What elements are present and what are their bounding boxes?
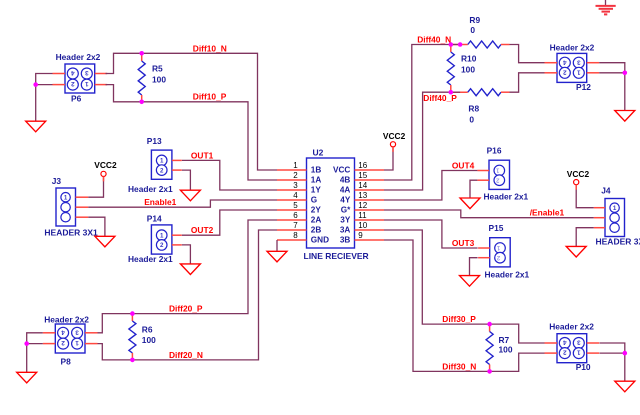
svg-text:Diff30_N: Diff30_N (442, 361, 476, 371)
wire VCC2 to J4 pin1 (576, 185, 594, 208)
wire net Diff10_P from P6 to U2 pin2 (106, 85, 278, 180)
wire net /Enable1 from U2 pin12 to J4 pin2 (384, 210, 594, 218)
svg-text:Header 2x2: Header 2x2 (56, 52, 101, 62)
svg-text:VCC2: VCC2 (567, 169, 590, 179)
svg-text:1: 1 (75, 339, 79, 346)
ground under P16 (460, 198, 480, 209)
wire P16 pin2 to ground (470, 180, 477, 198)
svg-text:R8: R8 (468, 104, 479, 114)
wire net OUT1 from P13 to U2 pin3 (182, 160, 277, 190)
svg-text:P8: P8 (61, 357, 72, 367)
svg-text:OUT2: OUT2 (191, 225, 214, 235)
wire P15 pin2 to ground (470, 258, 478, 276)
svg-text:Header 2x1: Header 2x1 (128, 184, 173, 194)
svg-text:Enable1: Enable1 (144, 197, 176, 207)
svg-text:1: 1 (577, 68, 581, 75)
resistor R6 (129, 314, 136, 360)
ground under P10 (615, 381, 635, 392)
junction Diff20_N at R6 (130, 358, 135, 363)
wire P8 pins to ground (27, 333, 43, 373)
connector P16 Header 2x1 (477, 160, 509, 189)
svg-text:2: 2 (160, 167, 164, 174)
svg-text:Diff10_P: Diff10_P (193, 92, 227, 102)
svg-text:GND: GND (311, 236, 329, 245)
svg-text:VCC2: VCC2 (383, 131, 406, 141)
svg-text:2B: 2B (311, 226, 322, 235)
svg-text:4A: 4A (340, 186, 351, 195)
svg-text:3: 3 (577, 339, 581, 346)
svg-text:1: 1 (160, 158, 164, 165)
resistor R10 (447, 45, 454, 93)
svg-text:Header 2x2: Header 2x2 (550, 42, 595, 52)
svg-text:1: 1 (496, 167, 500, 174)
junction Diff30_N at R7 (487, 369, 492, 374)
resistor R5 (138, 53, 145, 102)
wire J3 pin3 to ground (88, 217, 105, 236)
svg-text:9: 9 (358, 231, 363, 240)
svg-text:P12: P12 (576, 82, 591, 92)
svg-text:R5: R5 (152, 64, 163, 74)
svg-text:14: 14 (358, 181, 367, 190)
svg-text:7: 7 (293, 221, 298, 230)
svg-text:HEADER 3X1: HEADER 3X1 (596, 236, 640, 246)
svg-text:OUT3: OUT3 (452, 238, 475, 248)
wire R7 bottom to P10 (490, 353, 545, 371)
ground under U2 pin8 (267, 251, 287, 262)
connector P6 Header 2x2 (53, 64, 108, 93)
svg-text:Diff20_N: Diff20_N (169, 350, 203, 360)
svg-text:0: 0 (470, 25, 475, 35)
wire VCC2 to U2 pin16 (384, 147, 393, 170)
connector J4 HEADER 3X1 (594, 199, 625, 237)
svg-text:1: 1 (293, 161, 298, 170)
resistor R9 (451, 41, 510, 48)
resistor R8 (451, 89, 510, 96)
wire net OUT3 from U2 pin11 to P15 (384, 220, 478, 248)
svg-text:VCC: VCC (333, 166, 350, 175)
svg-text:10: 10 (358, 221, 367, 230)
svg-text:3: 3 (85, 69, 89, 76)
svg-text:R10: R10 (461, 54, 477, 64)
resistor R7 (486, 324, 493, 371)
power VCC2 near U2 (390, 142, 395, 152)
junction Diff40_N at R9 (458, 42, 463, 47)
svg-text:4: 4 (563, 58, 567, 65)
wire P12 right pins to ground (599, 63, 625, 111)
svg-text:12: 12 (358, 201, 367, 210)
svg-text:1B: 1B (311, 166, 322, 175)
ground under J4 (566, 246, 586, 257)
junction Diff30_P at R7 (487, 322, 492, 327)
connector P13 Header 2x1 (151, 150, 181, 179)
wire R7 top to P10 (490, 324, 545, 343)
svg-text:1: 1 (613, 205, 617, 212)
svg-text:16: 16 (358, 161, 367, 170)
svg-text:4: 4 (71, 69, 75, 76)
svg-text:3B: 3B (340, 236, 351, 245)
wire net Diff20_N from U2 pin7 to P8 (98, 230, 278, 360)
svg-text:P13: P13 (147, 136, 162, 146)
svg-text:1: 1 (64, 195, 68, 202)
ground under P8 (17, 372, 37, 383)
junction P10 ground (623, 351, 628, 356)
svg-text:G*: G* (341, 206, 351, 215)
wire net Diff40_N from U2 pin15 to R9/R10 (384, 45, 460, 181)
svg-text:OUT4: OUT4 (452, 161, 475, 171)
svg-text:Diff30_P: Diff30_P (442, 314, 476, 324)
ground under P12 (615, 111, 635, 122)
svg-text:2Y: 2Y (311, 206, 322, 215)
svg-text:6: 6 (293, 211, 298, 220)
svg-text:4Y: 4Y (340, 196, 351, 205)
svg-text:100: 100 (461, 65, 475, 75)
svg-text:P16: P16 (487, 145, 502, 155)
svg-text:3A: 3A (340, 226, 351, 235)
svg-text:4: 4 (563, 339, 567, 346)
wire stub to earth ground (605, 0, 607, 6)
svg-text:2: 2 (496, 254, 500, 261)
svg-text:P14: P14 (147, 214, 162, 224)
junction P8 ground (24, 341, 29, 346)
junction Diff40_N at R10 (449, 42, 454, 47)
svg-text:100: 100 (499, 344, 513, 354)
wire U2 pin8 GND to ground (276, 240, 278, 251)
wire P6 pins to ground (36, 74, 53, 122)
svg-text:HEADER 3X1: HEADER 3X1 (44, 228, 98, 238)
svg-text:R6: R6 (142, 325, 153, 335)
svg-text:100: 100 (152, 75, 166, 85)
svg-text:2: 2 (61, 339, 65, 346)
svg-text:5: 5 (293, 201, 298, 210)
svg-text:Header 2x1: Header 2x1 (484, 191, 529, 201)
svg-text:1: 1 (577, 349, 581, 356)
ground under J3 (95, 236, 115, 247)
ground under P14 (180, 264, 200, 275)
svg-text:Diff20_P: Diff20_P (169, 304, 203, 314)
svg-text:Header 2x2: Header 2x2 (44, 315, 89, 325)
svg-text:100: 100 (142, 335, 156, 345)
connector P10 Header 2x2 (545, 334, 600, 363)
svg-text:U2: U2 (313, 148, 324, 158)
earth ground top right (596, 6, 616, 15)
wire net OUT2 from P14 to U2 pin5 (182, 210, 277, 235)
ground under P13 (180, 190, 200, 201)
svg-text:4: 4 (61, 328, 65, 335)
svg-text:8: 8 (293, 231, 298, 240)
wire R9 to P12 pin4 (510, 45, 545, 63)
svg-text:Diff40_P: Diff40_P (423, 93, 457, 103)
svg-text:3: 3 (293, 181, 298, 190)
wire P10 right pins to ground (600, 343, 625, 381)
junction P6 ground (33, 82, 38, 87)
wire net Diff30_P from U2 pin10 to R7 (384, 230, 490, 324)
svg-text:Diff10_N: Diff10_N (193, 44, 227, 54)
wire VCC2 to J3 pin1 (88, 177, 103, 197)
wire P12 pin1 to junction (599, 72, 625, 74)
connector P14 Header 2x1 (151, 225, 181, 254)
connector P8 Header 2x2 (43, 324, 98, 353)
svg-text:1A: 1A (311, 176, 322, 185)
svg-text:P15: P15 (489, 223, 504, 233)
svg-text:1: 1 (496, 244, 500, 251)
svg-text:Diff40_N: Diff40_N (417, 34, 451, 44)
svg-text:3Y: 3Y (340, 216, 351, 225)
svg-text:2: 2 (160, 242, 164, 249)
wire R8 to P12 pin2 (510, 73, 545, 92)
svg-text:1: 1 (160, 233, 164, 240)
wire P8 pin2 to junction (27, 343, 43, 345)
svg-text:4B: 4B (340, 176, 351, 185)
wire P10 pin1 to junction (600, 352, 625, 354)
power VCC2 near J4 (574, 180, 579, 190)
svg-text:2: 2 (71, 80, 75, 87)
svg-text:3: 3 (577, 58, 581, 65)
ground under P6 (26, 121, 46, 132)
wire net Diff40_P from U2 pin14 to R8/R10 (384, 92, 460, 190)
power VCC2 near J3 (101, 171, 106, 181)
svg-text:P6: P6 (71, 94, 82, 104)
junction Diff20_P at R6 (130, 311, 135, 316)
svg-text:P10: P10 (576, 362, 591, 372)
wire net Diff10_N from P6 to U2 pin1 (106, 53, 278, 170)
svg-text:15: 15 (358, 171, 367, 180)
wire net Diff20_P from U2 pin6 to P8 (98, 220, 278, 333)
wire P6 pin2 to junction (36, 84, 53, 86)
svg-text:OUT1: OUT1 (191, 150, 214, 160)
wire P13 pin2 to ground (182, 170, 191, 190)
svg-text:Header 2x1: Header 2x1 (128, 254, 173, 264)
svg-text:VCC2: VCC2 (94, 160, 117, 170)
svg-text:Header 2x1: Header 2x1 (485, 269, 530, 279)
svg-text:13: 13 (358, 191, 367, 200)
wire net Diff30_N from U2 pin9 to R7 (384, 240, 490, 371)
wire net OUT4 from U2 pin13 to P16 (384, 171, 477, 201)
svg-text:2: 2 (496, 176, 500, 183)
svg-text:2A: 2A (311, 216, 322, 225)
svg-text:R9: R9 (469, 15, 480, 25)
svg-text:R7: R7 (499, 335, 510, 345)
svg-text:J4: J4 (601, 186, 611, 196)
connector P15 Header 2x1 (478, 238, 510, 267)
connector P12 Header 2x2 (545, 53, 600, 82)
svg-text:G: G (311, 196, 317, 205)
svg-text:2: 2 (293, 171, 298, 180)
IC U2 LINE RECIEVER 16-pin (277, 158, 384, 248)
svg-text:3: 3 (75, 328, 79, 335)
connector J3 HEADER 3X1 (56, 188, 88, 226)
svg-text:2: 2 (563, 349, 567, 356)
svg-text:11: 11 (358, 211, 367, 220)
junction Diff10_P at R5 (139, 100, 144, 105)
svg-text:LINE RECIEVER: LINE RECIEVER (304, 251, 369, 261)
svg-text:2: 2 (563, 68, 567, 75)
svg-text:0: 0 (469, 115, 474, 125)
wire J4 pin3 to ground (576, 228, 594, 247)
junction P12 ground (623, 71, 628, 76)
svg-text:1: 1 (85, 80, 89, 87)
junction Diff10_N at R5 (139, 51, 144, 56)
svg-text:/Enable1: /Enable1 (530, 208, 565, 218)
junction Diff40_P at R10 (449, 90, 454, 95)
svg-text:1Y: 1Y (311, 186, 322, 195)
ground under P15 (460, 276, 480, 287)
wire net Enable1 from J3 pin2 to U2 pin4 (88, 200, 277, 207)
wire P14 pin2 to ground (182, 245, 191, 264)
svg-text:J3: J3 (52, 176, 62, 186)
svg-text:4: 4 (293, 191, 298, 200)
svg-text:Header 2x2: Header 2x2 (549, 321, 594, 331)
